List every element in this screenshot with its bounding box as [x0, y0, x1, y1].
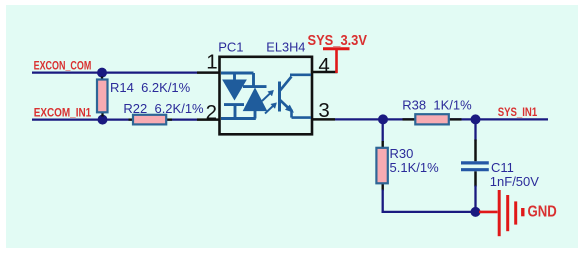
pin stub R22 right (black): [165, 118, 172, 120]
svg-text:R14 6.2K/1%: R14 6.2K/1%: [110, 80, 191, 95]
wire R30 bottom vertical: [382, 190, 384, 214]
svg-text:R22 6.2K/1%: R22 6.2K/1%: [123, 101, 204, 116]
pin number 2: [206, 101, 217, 124]
ground bar 2: [506, 195, 509, 231]
transistor emitter arrowhead: [285, 105, 294, 113]
svg-text:PC1: PC1: [218, 40, 243, 55]
wire C11 top vertical: [474, 119, 476, 140]
pin number 4: [318, 54, 329, 77]
label R14 6.2K/1%: [110, 80, 191, 95]
wire R30 top vertical: [382, 119, 384, 142]
wire R14 bottom stub: [101, 117, 103, 120]
junction node on EXCON_COM: [97, 68, 107, 78]
pin stub R38 right (black): [448, 118, 462, 120]
LED pair of PC1 (bidirectional input diodes): [221, 73, 267, 119]
capacitor C11 top plate: [461, 161, 489, 164]
label R30: [390, 146, 414, 161]
ground stub (red): [479, 211, 498, 214]
ground bar 3: [514, 201, 517, 224]
resistor R14: [97, 80, 108, 113]
junction node at R30 branch: [378, 114, 388, 124]
wire net EXCON_COM (top left horizontal): [32, 71, 197, 73]
junction node on EXCOM_IN1: [98, 115, 108, 125]
capacitor C11 bottom plate: [461, 168, 489, 171]
svg-text:R38 1K/1%: R38 1K/1%: [402, 97, 472, 112]
svg-text:2: 2: [206, 101, 217, 124]
resistor R22: [133, 115, 166, 125]
pin stub C11 bottom (black): [474, 171, 477, 186]
wire net EXCOM_IN1 (bottom left horizontal): [32, 118, 197, 120]
junction node at C11 branch: [471, 114, 481, 124]
label R38 1K/1%: [402, 97, 472, 112]
net label EXCOM_IN1: [34, 107, 92, 120]
power net label SYS_3.3V: [308, 31, 368, 48]
label EL3H4: [266, 40, 305, 55]
wire C11 bottom vertical: [474, 186, 476, 212]
pin number 1: [206, 50, 217, 73]
label R22 6.2K/1%: [123, 101, 204, 116]
pin stub R30 top (black): [382, 141, 384, 149]
ground label GND: [528, 203, 557, 220]
pin stub R14 top (black): [101, 77, 103, 81]
power symbol SYS_3.3V bar: [323, 47, 350, 50]
photo-transistor of PC1: [280, 75, 312, 118]
pin number 3: [318, 99, 329, 122]
pin stub R22 left (black): [129, 118, 135, 120]
power symbol SYS_3.3V vertical: [335, 49, 338, 73]
pin stub C11 top (black): [474, 140, 477, 162]
wire bottom ground rail: [382, 211, 476, 213]
svg-text:C11: C11: [491, 160, 514, 175]
pin 1 stub (black): [197, 71, 220, 74]
junction node at ground rail: [471, 207, 481, 217]
label 5.1K/1%: [390, 160, 440, 175]
svg-text:5.1K/1%: 5.1K/1%: [390, 160, 440, 175]
svg-text:EXCON_COM: EXCON_COM: [34, 61, 92, 73]
wire R14 top stub: [101, 73, 103, 77]
svg-text:4: 4: [318, 54, 329, 77]
svg-text:1nF/50V: 1nF/50V: [490, 174, 539, 189]
net label SYS_IN1: [498, 106, 537, 119]
ground bar 4: [521, 208, 524, 216]
label C11: [491, 160, 514, 175]
pin 2 stub (black): [197, 118, 220, 121]
pin stub R14 bottom (black): [101, 112, 103, 117]
svg-text:R30: R30: [390, 146, 414, 161]
svg-text:SYS_3.3V: SYS_3.3V: [308, 31, 368, 48]
op-to-coupler U box outline PC1: [220, 57, 313, 135]
resistor R30: [376, 148, 387, 184]
pin stub R30 bottom (black): [382, 183, 384, 191]
ground bar 1: [498, 190, 501, 236]
LED emission arrow lower: [265, 103, 277, 114]
LED emission arrow upper: [262, 90, 274, 101]
label 1nF/50V: [490, 174, 539, 189]
svg-text:GND: GND: [528, 203, 557, 220]
svg-text:EXCOM_IN1: EXCOM_IN1: [34, 107, 92, 120]
resistor R38: [415, 114, 449, 124]
net label EXCON_COM: [34, 61, 92, 73]
label PC1: [218, 40, 243, 55]
svg-text:EL3H4: EL3H4: [266, 40, 305, 55]
pin stub R38 left (black): [403, 118, 417, 120]
pin 4 stub (black): [313, 71, 338, 74]
svg-text:1: 1: [206, 50, 217, 73]
pin 3 stub (black): [313, 118, 336, 121]
wire pin3 to SYS_IN1: [335, 118, 548, 120]
svg-text:SYS_IN1: SYS_IN1: [498, 106, 537, 119]
